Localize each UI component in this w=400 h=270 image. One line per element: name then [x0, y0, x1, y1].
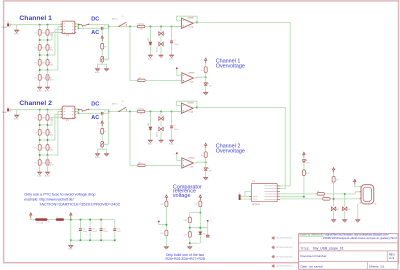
svg-text:R25+R26 ZD6+R27+R28: R25+R26 ZD6+R27+R28 [166, 257, 205, 261]
svg-text:MOUNT-HOLE3.0: MOUNT-HOLE3.0 [277, 238, 294, 240]
svg-text:MOUNT-HOLE3.0: MOUNT-HOLE3.0 [277, 256, 294, 258]
svg-text:ZD6: ZD6 [203, 233, 206, 235]
svg-text:MOUNT-HOLE3.0: MOUNT-HOLE3.0 [277, 266, 294, 268]
svg-text:1: 1 [156, 222, 157, 224]
wire ch2 output to micro [197, 107, 285, 188]
inductor L1 [56, 216, 64, 221]
svg-text:Date: not saved!: Date: not saved! [301, 265, 324, 269]
resistor R21 pullup [332, 173, 339, 182]
net stub ref1 [156, 221, 168, 226]
resistor R29 [184, 232, 201, 244]
svg-text:tiny_USB_scope_b1: tiny_USB_scope_b1 [313, 247, 344, 251]
resistor R23 [323, 196, 330, 200]
wire pullup to D+ [333, 182, 335, 206]
svg-text:3V6: 3V6 [347, 209, 350, 211]
wire mid junction row [190, 227, 208, 229]
mount hole 2 [272, 246, 294, 249]
supply arrow vcc [70, 213, 72, 220]
wire zd6 ground [190, 235, 201, 247]
svg-text:68: 68 [317, 191, 319, 193]
microcontroller IC4 [249, 181, 280, 206]
mount hole 1 [272, 236, 294, 239]
svg-text:Document Number:: Document Number: [301, 254, 328, 258]
mount hole 4 [272, 264, 294, 267]
capacitor C10 [79, 228, 87, 233]
channel 2 block [2, 101, 213, 180]
svg-text:100nF: 100nF [92, 231, 97, 233]
ground ref1 [164, 247, 169, 250]
svg-text:100nF: 100nF [103, 231, 108, 233]
wire R26 ground [165, 236, 167, 247]
branch resistor R28 [184, 213, 201, 232]
connector J1 [238, 192, 251, 201]
capacitor Cref [206, 228, 209, 238]
ground power [70, 240, 72, 245]
title block [299, 233, 399, 270]
ground ref2 [187, 247, 192, 250]
capacitor C11 [89, 228, 97, 233]
svg-text:ATTINY45: ATTINY45 [252, 203, 260, 206]
capacitor C13 [111, 224, 121, 233]
supply arrow status [300, 152, 305, 157]
pullup column [330, 168, 335, 173]
usb connector X2 [360, 185, 377, 206]
svg-text:1K5: 1K5 [336, 180, 339, 182]
svg-text:R24: R24 [306, 173, 309, 175]
svg-text:AC: AC [91, 30, 99, 36]
wire fuse to L1 [48, 219, 56, 221]
svg-text:MOUNT-HOLE3.0: MOUNT-HOLE3.0 [277, 247, 294, 249]
svg-text:10uF: 10uF [117, 231, 121, 233]
net stub ref2 [207, 220, 211, 228]
zener ZD2 [343, 193, 351, 219]
svg-text:R29: R29 [184, 235, 187, 237]
svg-text:R26: R26 [160, 233, 163, 235]
svg-text:X2: X2 [374, 204, 376, 206]
svg-text:AC: AC [91, 115, 99, 121]
svg-text:voltage: voltage [173, 193, 191, 199]
fuse F1 [35, 218, 50, 224]
ground ZD1 [331, 220, 336, 223]
svg-text:?ACTION=3;ARTICLE=35201;PROVID: ?ACTION=3;ARTICLE=35201;PROVID=2402 [39, 201, 121, 206]
svg-text:IC4: IC4 [252, 181, 255, 183]
wire R25 to R26 [165, 207, 167, 231]
svg-text:R25: R25 [160, 204, 163, 206]
svg-text:R28: R28 [184, 220, 187, 222]
svg-text:Channel 2: Channel 2 [19, 100, 52, 107]
bottom rail [71, 239, 115, 241]
svg-text:C13: C13 [117, 229, 120, 231]
zener ZD6 [199, 232, 206, 236]
ground usb [355, 220, 360, 223]
svg-text:Overvoltage: Overvoltage [216, 64, 245, 70]
svg-text:1: 1 [210, 221, 211, 223]
svg-text:Channel 1: Channel 1 [19, 15, 52, 22]
led LED3 [302, 157, 310, 164]
svg-text:DC: DC [91, 17, 99, 23]
supply arrow ref1 [163, 195, 168, 200]
ground ZD2 [342, 220, 347, 223]
svg-text:Sheets: 1/1: Sheets: 1/1 [369, 265, 385, 269]
svg-text:TITLE:: TITLE: [301, 247, 310, 251]
svg-text:1: 1 [163, 196, 164, 198]
svg-text:Overvoltage: Overvoltage [216, 149, 245, 155]
wire micro to usb line D- [280, 192, 361, 194]
wire micro to usb line D+ [280, 198, 361, 200]
wire usb shield ground [357, 204, 359, 220]
svg-text:68: 68 [323, 196, 325, 198]
svg-text:F1: F1 [48, 221, 50, 223]
svg-text:Only use a PTC fuse to avoid v: Only use a PTC fuse to avoid voltage dro… [24, 193, 95, 197]
supply arrow VBUS [354, 179, 361, 186]
resistor R26 [160, 230, 168, 236]
mount hole 3 [272, 255, 294, 258]
svg-text:..2008/10/cheapest-dual-trace-: ..2008/10/cheapest-dual-trace-scope-in-g… [321, 236, 398, 240]
cap bank verticals [71, 220, 115, 241]
svg-text:v1.9: v1.9 [389, 256, 395, 260]
top rail [64, 219, 115, 221]
svg-text:J1: J1 [238, 192, 240, 194]
supply arrow ref2 [197, 195, 202, 200]
resistor R24 [302, 162, 309, 175]
resistor R22 [317, 191, 324, 195]
svg-text:3V6: 3V6 [336, 209, 339, 211]
wire status led column [280, 176, 304, 197]
svg-text:1: 1 [197, 196, 198, 198]
resistor R25 [160, 200, 168, 206]
wire R27 down [199, 207, 201, 232]
svg-text:C10: C10 [83, 229, 86, 231]
wire ch1 output to micro [197, 22, 290, 186]
svg-text:C12: C12 [103, 229, 106, 231]
svg-text:C11: C11 [92, 229, 95, 231]
svg-text:L1: L1 [57, 216, 59, 218]
svg-text:1: 1 [330, 169, 331, 171]
svg-text:1: 1 [300, 153, 301, 155]
svg-text:DC: DC [91, 102, 99, 108]
supply arrow vin [30, 213, 36, 220]
zener ZD1 [331, 207, 339, 219]
channel 1 block [2, 16, 213, 95]
capacitor C12 [100, 228, 108, 233]
svg-text:R27: R27 [194, 204, 197, 206]
svg-text:100nF: 100nF [83, 231, 88, 233]
resistor R27 [194, 200, 202, 206]
